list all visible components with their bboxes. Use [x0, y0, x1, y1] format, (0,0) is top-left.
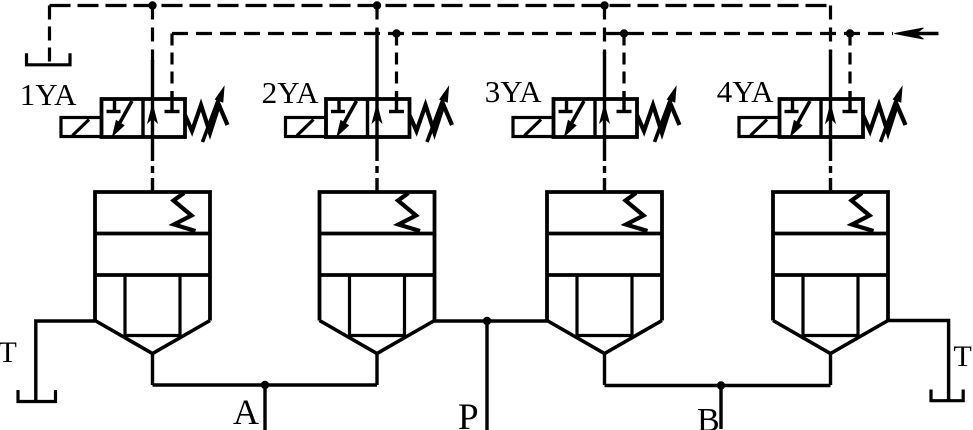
flow path line through valve 1YA — [151, 99, 154, 137]
drain arrow, left box of 2YA — [337, 101, 356, 136]
cartridge valve 2 — [320, 192, 435, 385]
cartridge valve 4 section line lower — [773, 273, 888, 277]
cartridge valve 4 — [773, 192, 888, 385]
cartridge valve 3 bottom port stub — [603, 354, 606, 386]
pilot valve 2YA body (2-position boxes) — [326, 99, 410, 137]
flow arrow, right box of 2YA — [372, 105, 381, 123]
return spring of valve 2YA — [410, 105, 453, 133]
flow arrow, right box of 3YA — [600, 105, 609, 123]
junction dot bus2 / valve 3YA port — [620, 29, 628, 37]
cartridge valve 4 sleeve — [773, 192, 888, 321]
junction dot bus2 / valve 2YA port — [392, 29, 400, 37]
cartridge valve 3 — [547, 192, 662, 385]
pilot drop line to valve 3YA — [603, 6, 606, 100]
tank symbol left — [18, 390, 56, 402]
solenoid pilot valve 1YA — [61, 87, 228, 142]
pilot valve 4YA body (2-position boxes) — [780, 99, 864, 137]
flow path line through valve 4YA — [829, 99, 832, 137]
pilot drain line from valve 2YA spring-side port — [395, 34, 398, 91]
label T left — [0, 338, 17, 368]
port A line — [263, 385, 266, 430]
port B line — [719, 386, 722, 430]
solenoid pilot valve 3YA — [513, 87, 680, 142]
solenoid actuator of valve 1YA — [61, 118, 102, 137]
pilot drop line to valve 4YA — [829, 6, 832, 100]
flow path line through valve 2YA — [375, 99, 378, 137]
pilot drain line from valve 3YA spring-side port — [622, 34, 625, 91]
cartridge valve 2 seat cone — [320, 321, 435, 354]
label 4YA — [717, 76, 774, 107]
wire: cartridge4 side port to right tank — [888, 321, 949, 401]
label A — [233, 394, 259, 430]
cartridge valve 3 closing spring — [626, 193, 648, 231]
flow path line through valve 3YA — [603, 99, 606, 137]
junction node B — [717, 381, 725, 389]
cartridge valve 3 section line lower — [547, 273, 662, 277]
cartridge valve 1 sleeve — [95, 192, 210, 321]
drain arrow, left box of 1YA — [113, 101, 132, 136]
cartridge valve 3 seat cone — [547, 321, 662, 354]
blocked port T symbol, right box of 2YA — [389, 91, 404, 112]
pilot line bus 1 (top dashed) — [50, 4, 831, 7]
pilot line valve 1YA to cartridge 1 — [151, 137, 154, 192]
pilot line valve 4YA to cartridge 4 — [829, 137, 832, 192]
cartridge valve 1 seat cone — [95, 321, 210, 354]
cartridge valve 4 section line upper — [773, 232, 888, 236]
blocked port T symbol, left box of 3YA — [559, 99, 573, 112]
blocked port T symbol, left box of 2YA — [331, 99, 345, 112]
cartridge valve 3 poppet sides — [577, 275, 632, 336]
blocked port T symbol, right box of 3YA — [617, 91, 632, 112]
port P line — [485, 321, 488, 430]
pilot drop line to valve 1YA — [151, 6, 154, 100]
return spring of valve 3YA — [637, 105, 680, 133]
cartridge valve 4 seat cone — [773, 321, 888, 354]
drain arrow, left box of 4YA — [791, 101, 810, 136]
junction dot bus1 / valve 2YA — [373, 1, 381, 9]
blocked port T symbol, right box of 1YA — [165, 91, 180, 112]
solenoid pilot valve 4YA — [739, 87, 906, 142]
cartridge valve 2 bottom port stub — [375, 354, 378, 386]
adjustability arrow across spring of valve 1YA — [203, 87, 225, 142]
blocked port T symbol, left box of 4YA — [785, 99, 799, 112]
pilot drop line to valve 2YA — [375, 6, 378, 100]
cartridge valve 4 closing spring — [852, 193, 874, 231]
junction node P — [483, 317, 491, 325]
wire: cartridge2 to cartridge3 side ports — [435, 319, 548, 322]
cartridge valve 1 poppet sides — [125, 275, 180, 336]
pilot line valve 2YA to cartridge 2 — [375, 137, 378, 192]
blocked port T symbol, right box of 4YA — [843, 91, 858, 112]
label 3YA — [485, 76, 542, 107]
pilot drain line from valve 1YA spring-side port — [170, 34, 173, 91]
cartridge valve 1 section line lower — [95, 273, 210, 277]
blocked port T symbol, left box of 1YA — [107, 99, 121, 112]
cartridge valve 1 section line upper — [95, 232, 210, 236]
drain arrow, left box of 3YA — [565, 101, 584, 136]
cartridge valve 4 poppet sides — [803, 275, 858, 336]
flow arrow, right box of 1YA — [148, 105, 157, 123]
cartridge valve 3 sleeve — [547, 192, 662, 321]
wire: cartridge1-cartridge2 manifold to port A — [153, 383, 378, 386]
cartridge valve 2 closing spring — [398, 193, 420, 231]
label 1YA — [20, 79, 77, 110]
pilot valve 3YA body (2-position boxes) — [554, 99, 638, 137]
cartridge valve 1 bottom port stub — [151, 354, 154, 386]
flow arrow, right box of 4YA — [826, 105, 835, 123]
pilot line bus 2 (second dashed) — [172, 32, 893, 35]
wire: cartridge3-cartridge4 manifold to port B — [605, 384, 831, 387]
pilot valve 1YA body (2-position boxes) — [102, 99, 186, 137]
adjustability arrow across spring of valve 2YA — [427, 87, 449, 142]
junction dot bus2 / valve 4YA port — [846, 29, 854, 37]
junction node A — [261, 381, 269, 389]
cartridge valve 2 section line upper — [320, 232, 435, 236]
solenoid actuator of valve 2YA — [286, 118, 327, 137]
junction dot bus1 / valve 1YA — [148, 1, 156, 9]
label 2YA — [262, 77, 319, 108]
cartridge valve 1 — [95, 192, 210, 385]
label T right — [954, 342, 972, 372]
label B — [697, 404, 720, 430]
external pilot supply arrow — [895, 28, 939, 39]
junction dot bus1 / valve 3YA — [600, 1, 608, 9]
cartridge valve 3 section line upper — [547, 232, 662, 236]
solenoid actuator of valve 4YA — [739, 118, 780, 137]
cartridge valve 2 section line lower — [320, 273, 435, 277]
pilot drain line from valve 4YA spring-side port — [848, 34, 851, 91]
adjustability arrow across spring of valve 3YA — [655, 87, 677, 142]
solenoid actuator of valve 3YA — [513, 118, 554, 137]
cartridge valve 1 closing spring — [174, 193, 196, 231]
cartridge valve 2 poppet sides — [350, 275, 405, 336]
label P — [458, 399, 479, 430]
vent (tank) symbol top-left — [27, 53, 71, 65]
return spring of valve 1YA — [185, 105, 228, 133]
pilot line drop to vent, left end — [48, 6, 51, 63]
wire: cartridge1 side port to left tank — [36, 321, 95, 402]
cartridge valve 4 bottom port stub — [829, 354, 832, 386]
cartridge valve 2 sleeve — [320, 192, 435, 321]
return spring of valve 4YA — [863, 105, 906, 133]
solenoid pilot valve 2YA — [286, 87, 453, 142]
pilot line valve 3YA to cartridge 3 — [603, 137, 606, 192]
adjustability arrow across spring of valve 4YA — [881, 87, 903, 142]
tank symbol right — [931, 390, 963, 401]
